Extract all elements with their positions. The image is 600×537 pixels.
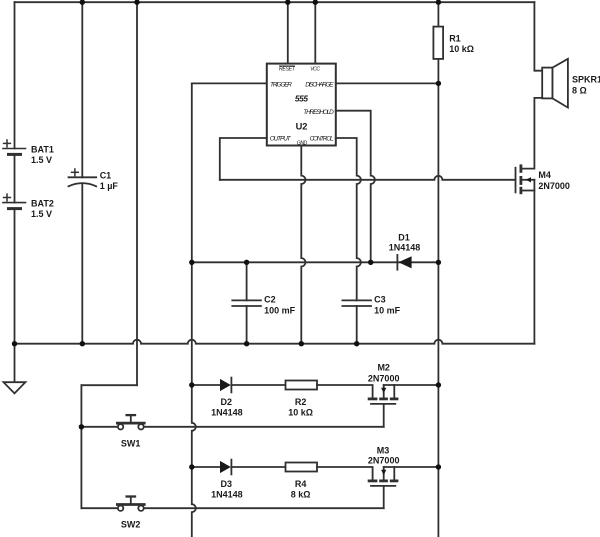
- wire jog to switch left vertical: [81, 384, 137, 386]
- svg-text:10 kΩ: 10 kΩ: [449, 44, 474, 54]
- svg-text:100 mF: 100 mF: [264, 305, 296, 315]
- wire bottom ground rail with hops: [15, 340, 535, 344]
- battery BAT2: [3, 194, 26, 209]
- svg-text:BAT1: BAT1: [31, 144, 54, 154]
- capacitor C2: [232, 300, 261, 306]
- svg-text:1N4148: 1N4148: [211, 490, 243, 500]
- svg-text:R4: R4: [295, 479, 307, 489]
- svg-text:D3: D3: [221, 479, 233, 489]
- wire SW2 row: [81, 507, 118, 509]
- resistor R4: [286, 463, 318, 472]
- wire speaker bottom to M4 drain: [521, 98, 542, 169]
- diode D2: [220, 378, 231, 393]
- svg-text:1.5 V: 1.5 V: [31, 209, 52, 219]
- transistor M4: [516, 164, 535, 194]
- capacitor C1: [69, 169, 97, 186]
- node SW1 left junction: [79, 424, 84, 429]
- wire TRIGGER pin: [192, 82, 267, 84]
- svg-text:SPKR1: SPKR1: [572, 75, 600, 85]
- svg-text:R1: R1: [449, 34, 461, 44]
- transistor M2: [368, 385, 399, 404]
- wire M3 gate down: [383, 486, 385, 508]
- wire VCC stub: [314, 2, 316, 63]
- wire D3 row left: [192, 466, 220, 468]
- wire M3 source to bus: [384, 466, 439, 468]
- svg-text:8 Ω: 8 Ω: [572, 85, 587, 95]
- node trigger row junctions: [189, 260, 194, 265]
- wire D1 trigger row with hops: [192, 261, 439, 263]
- svg-text:M4: M4: [538, 170, 551, 180]
- svg-text:R2: R2: [295, 397, 307, 407]
- svg-text:D2: D2: [221, 397, 233, 407]
- diode D1: [397, 255, 411, 270]
- transistor M3: [368, 467, 399, 486]
- wire R2 to M2 drain: [317, 385, 373, 398]
- wire C3 column lower: [356, 306, 358, 344]
- wire M4 source column: [533, 180, 535, 344]
- svg-text:CONTROL: CONTROL: [310, 135, 334, 142]
- svg-text:BAT2: BAT2: [31, 198, 54, 208]
- capacitor C3: [342, 300, 371, 306]
- wire CONTROL pin down to C3: [336, 138, 361, 300]
- svg-text:1 µF: 1 µF: [100, 181, 119, 191]
- switch SW2: [116, 497, 146, 511]
- node D3 row junctions: [189, 464, 194, 469]
- svg-text:TRIGGER: TRIGGER: [270, 82, 292, 89]
- wire right column top to speaker: [534, 2, 542, 71]
- svg-text:1.5 V: 1.5 V: [31, 155, 52, 165]
- wire R1 column top: [437, 2, 439, 26]
- battery BAT1: [3, 140, 26, 154]
- wire battery column upper: [14, 2, 16, 148]
- wire R4 to M3 drain: [317, 467, 373, 480]
- svg-text:DISCHARGE: DISCHARGE: [305, 82, 334, 89]
- wire R1 bus column down full: [437, 59, 439, 537]
- wire GND column: [301, 146, 305, 344]
- svg-text:RESET: RESET: [279, 66, 296, 72]
- op-amp U2 555 timer box: [267, 64, 336, 146]
- svg-text:U2: U2: [296, 122, 308, 132]
- wire D3 to R4: [231, 466, 285, 468]
- svg-text:10 kΩ: 10 kΩ: [288, 408, 313, 418]
- svg-text:OUTPUT: OUTPUT: [270, 136, 292, 143]
- svg-text:SW1: SW1: [121, 438, 141, 448]
- svg-text:1N4148: 1N4148: [211, 408, 243, 418]
- node ground rail junctions: [12, 341, 17, 346]
- switch SW1: [116, 415, 146, 429]
- wire OUTPUT jog: [220, 138, 267, 180]
- wire x137 column from top rail down to switch net: [136, 2, 138, 385]
- svg-text:2N7000: 2N7000: [538, 181, 570, 191]
- svg-text:8 kΩ: 8 kΩ: [291, 490, 311, 500]
- diode D3: [220, 460, 231, 475]
- wire battery column lower: [14, 209, 16, 383]
- wire C2 column: [246, 262, 248, 300]
- wire output row to M4 gate with hops: [220, 176, 516, 180]
- wire switch left vertical: [80, 385, 82, 508]
- svg-text:C2: C2: [264, 294, 276, 304]
- wire C1 column upper: [81, 2, 83, 177]
- svg-text:10 mF: 10 mF: [374, 305, 401, 315]
- svg-text:M3: M3: [377, 446, 390, 456]
- speaker SPKR1: [542, 59, 568, 108]
- wire D2 row left: [192, 384, 220, 386]
- wire M2 source to bus: [384, 384, 439, 386]
- svg-text:D1: D1: [398, 232, 410, 242]
- svg-text:THRESHOLD: THRESHOLD: [303, 109, 334, 116]
- wire M2 gate down: [383, 404, 385, 427]
- resistor R1: [433, 27, 443, 59]
- svg-text:M2: M2: [377, 363, 390, 373]
- wire THRESHOLD pin: [336, 111, 375, 263]
- node R1 bottom / discharge: [436, 81, 441, 86]
- svg-text:VCC: VCC: [310, 66, 320, 72]
- svg-text:555: 555: [295, 93, 308, 103]
- wire C1 column lower: [81, 183, 83, 343]
- svg-text:2N7000: 2N7000: [368, 373, 400, 383]
- wire SW1 row: [81, 426, 118, 428]
- resistor R2: [286, 381, 318, 390]
- svg-text:1N4148: 1N4148: [389, 242, 421, 252]
- wire DISCHARGE to R1 bottom: [336, 82, 439, 84]
- node top rail junctions: [80, 0, 85, 5]
- ground: [4, 382, 26, 393]
- wire between batteries: [14, 154, 16, 202]
- svg-text:GND: GND: [297, 141, 308, 147]
- svg-text:C1: C1: [100, 171, 112, 181]
- wire RESET stub: [287, 2, 289, 63]
- wire trigger column with hops over switch rows: [192, 83, 196, 537]
- node D2 row junctions: [189, 382, 194, 387]
- wire top power rail: [15, 1, 535, 3]
- svg-text:C3: C3: [374, 294, 386, 304]
- wire D2 to R2: [231, 384, 285, 386]
- svg-text:SW2: SW2: [121, 520, 141, 530]
- svg-text:2N7000: 2N7000: [368, 456, 400, 466]
